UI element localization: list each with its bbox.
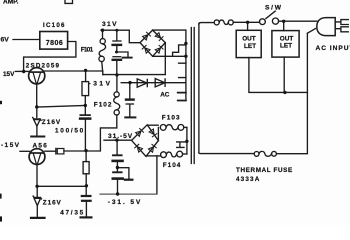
svg-text:47/35: 47/35: [60, 209, 83, 216]
svg-text:6V: 6V: [1, 36, 10, 43]
svg-text:Z16V: Z16V: [42, 119, 61, 126]
svg-text:-15V: -15V: [1, 142, 20, 149]
svg-text:OUT: OUT: [242, 35, 256, 42]
svg-text:LET: LET: [244, 43, 256, 50]
svg-text:31.-5V: 31.-5V: [108, 133, 133, 140]
svg-text:7806: 7806: [46, 40, 63, 47]
svg-text:AC: AC: [160, 91, 170, 98]
svg-text:IC106: IC106: [43, 22, 65, 29]
svg-text:15V: 15V: [3, 71, 15, 78]
svg-text:OUT: OUT: [280, 35, 294, 42]
svg-text:F104: F104: [163, 162, 181, 169]
svg-text:-31. 5V: -31. 5V: [108, 199, 141, 206]
svg-text:A56: A56: [33, 143, 48, 150]
svg-text:31V: 31V: [102, 21, 117, 28]
svg-text:AC INPUT: AC INPUT: [316, 45, 350, 52]
svg-text:F103: F103: [162, 114, 180, 121]
svg-text:F101: F101: [81, 47, 94, 54]
svg-text:Z16V: Z16V: [43, 200, 62, 207]
svg-text:F102: F102: [94, 101, 112, 108]
svg-text:LET: LET: [280, 43, 292, 50]
svg-text:AMP.: AMP.: [3, 0, 19, 6]
svg-text:THERMAL FUSE: THERMAL FUSE: [236, 167, 292, 174]
